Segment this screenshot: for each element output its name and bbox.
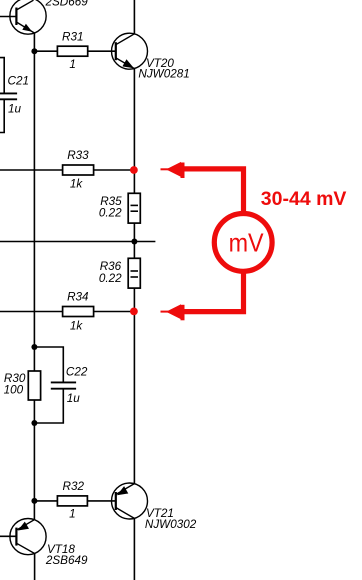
wire R31 right to VT20 base <box>88 50 116 52</box>
wire R32 right to VT21 base <box>87 500 115 502</box>
resistor R33 <box>63 165 94 175</box>
wire base lead of top transistor <box>0 16 16 18</box>
wire left edge to R33 left <box>0 169 63 171</box>
transistor VT18 (PNP) <box>10 519 46 555</box>
svg-text:R31: R31 <box>62 30 83 43</box>
resistor R35 <box>128 193 140 223</box>
capacitor C21 <box>0 93 17 99</box>
wire C21 top corner from left edge <box>0 58 4 94</box>
resistor R30 <box>28 371 40 400</box>
svg-text:R34: R34 <box>67 290 89 303</box>
svg-text:30-44 mV: 30-44 mV <box>261 188 347 210</box>
wire top transistor emitter to junction <box>33 33 35 51</box>
junction R30/C22 bottom <box>31 420 37 426</box>
red probe arrow bottom <box>161 304 185 320</box>
svg-text:R33: R33 <box>67 149 89 162</box>
wire left edge to R34 left <box>0 311 63 313</box>
wire node B down to VT21 emitter <box>133 311 135 483</box>
wire R35 bottom to mid junction <box>133 223 135 241</box>
wire mid junction to R36 top <box>133 242 135 259</box>
wire left rail junction down to R30 top junction <box>33 51 35 371</box>
red probe arrow top <box>161 162 185 178</box>
wire VT21 collector to bottom edge <box>133 518 135 580</box>
wire R32 junction to R32 left <box>34 500 57 502</box>
transistor 2SD669 (top, NPN) <box>10 0 46 34</box>
svg-text:2SD669: 2SD669 <box>45 0 89 8</box>
junction at mid wire <box>131 239 137 245</box>
wire middle horizontal through junction <box>0 241 155 243</box>
wire C22 top branch <box>34 347 63 382</box>
resistor R32 <box>57 496 87 506</box>
junction at R32 node <box>31 498 37 504</box>
wire R33 right to node A <box>94 169 134 171</box>
svg-text:C22: C22 <box>66 365 88 378</box>
svg-text:NJW0281: NJW0281 <box>138 67 189 80</box>
svg-text:1: 1 <box>69 508 76 521</box>
mV meter red lead top <box>184 169 244 213</box>
capacitor C22 <box>51 382 76 388</box>
svg-text:0.22: 0.22 <box>99 272 122 285</box>
wire R34 right to node B <box>94 311 134 313</box>
svg-text:C21: C21 <box>8 74 29 87</box>
svg-text:1u: 1u <box>8 102 22 115</box>
svg-text:mV: mV <box>229 228 265 258</box>
svg-text:0.22: 0.22 <box>99 207 122 220</box>
svg-text:1u: 1u <box>67 392 81 405</box>
wire node A to R35 top <box>133 170 135 193</box>
wire C22 bottom branch <box>34 389 63 423</box>
resistor R31 <box>57 46 87 56</box>
wire R32 junction down to VT18 emitter <box>33 501 35 520</box>
wire left rail R30 bottom junction to R32 junction <box>33 423 35 501</box>
wire center rail top (to VT20 collector) <box>133 0 135 34</box>
node B red probe dot <box>130 308 138 316</box>
svg-text:1k: 1k <box>70 177 84 190</box>
svg-text:R32: R32 <box>63 480 85 493</box>
wire C21 bottom corner to left edge <box>0 99 4 132</box>
mV meter circle U-meter <box>214 214 272 272</box>
wire junction to R31 left <box>34 50 57 52</box>
wire VT20 emitter down to node A <box>133 69 135 170</box>
wire R30 bottom lead <box>33 400 35 423</box>
transistor VT20 (NPN) <box>112 33 148 69</box>
resistor R34 <box>63 307 94 317</box>
wire R36 bottom to node B <box>133 288 135 311</box>
resistor R36 <box>128 258 140 288</box>
transistor VT21 (PNP) <box>112 483 148 519</box>
svg-text:1k: 1k <box>70 320 84 333</box>
svg-text:2SB649: 2SB649 <box>45 554 88 567</box>
svg-text:100: 100 <box>4 384 24 397</box>
node A red probe dot <box>130 166 138 174</box>
wire VT18 collector to bottom edge <box>34 554 36 580</box>
svg-text:1: 1 <box>69 58 76 71</box>
svg-text:R36: R36 <box>100 260 122 273</box>
svg-text:NJW0302: NJW0302 <box>145 518 197 531</box>
junction at R31 node <box>31 48 37 54</box>
mV meter red lead bottom <box>184 272 244 312</box>
wire VT18 base lead <box>0 535 16 537</box>
junction R30/C22 top <box>31 344 37 350</box>
